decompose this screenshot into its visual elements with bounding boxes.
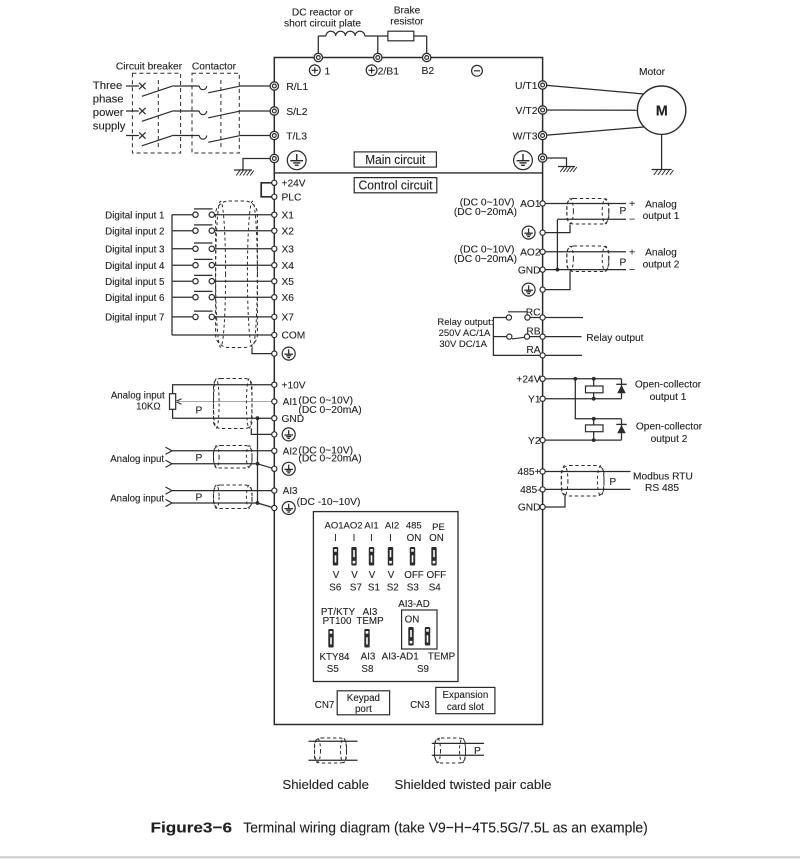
wire AI2 signal <box>172 450 274 452</box>
svg-text:Shielded cable: Shielded cable <box>282 777 369 792</box>
svg-text:PT100: PT100 <box>323 616 352 627</box>
junction AI2 common <box>256 462 260 466</box>
analog common wire vertical <box>257 418 259 503</box>
earth symbol motor <box>652 169 672 171</box>
wire 485- <box>543 488 631 490</box>
svg-text:P: P <box>196 493 203 504</box>
svg-text:AO1: AO1 <box>520 199 541 210</box>
earth symbol output side <box>558 166 575 168</box>
junction AO1 minus GND <box>556 268 560 272</box>
wire AI3 common <box>172 502 258 504</box>
svg-text:Analog: Analog <box>645 199 677 210</box>
svg-text:(DC 0~20mA): (DC 0~20mA) <box>298 454 361 465</box>
svg-text:(DC 0~20mA): (DC 0~20mA) <box>298 405 361 416</box>
svg-text:Digital input 2: Digital input 2 <box>105 226 164 237</box>
svg-text:P: P <box>609 477 616 488</box>
svg-text:power: power <box>93 107 124 119</box>
wire bus to switch X6 <box>172 296 193 298</box>
DIP switch S4 <box>431 547 436 566</box>
breaker fixed contact X mark phase T <box>139 132 146 138</box>
svg-text:S/L2: S/L2 <box>286 107 308 118</box>
terminal AO2 <box>540 249 545 254</box>
wire bracket to RB contact <box>493 336 506 338</box>
svg-text:Relay output: Relay output <box>586 333 643 344</box>
terminal 485- <box>540 487 545 492</box>
svg-text:AI2: AI2 <box>283 446 298 457</box>
svg-text:W/T3: W/T3 <box>513 131 538 142</box>
svg-text:2/B1: 2/B1 <box>378 67 400 78</box>
wire switch to terminal X3 <box>215 248 275 250</box>
wire phase T input <box>126 135 139 137</box>
svg-text:R/L1: R/L1 <box>286 82 308 93</box>
svg-text:supply: supply <box>93 121 126 133</box>
svg-text:Y2: Y2 <box>528 436 541 447</box>
svg-text:CN7: CN7 <box>315 700 335 711</box>
svg-text:CN3: CN3 <box>410 700 430 711</box>
svg-text:P: P <box>196 406 203 417</box>
svg-text:S5: S5 <box>327 664 340 675</box>
circuit breaker blade phase S <box>142 111 174 122</box>
svg-text:S6: S6 <box>329 583 342 594</box>
terminal +2/B1 <box>374 53 382 61</box>
PE symbol AO2 <box>522 283 535 296</box>
svg-text:ON: ON <box>405 615 420 626</box>
shielded cable AI2 <box>214 446 253 469</box>
label box: Main circuit <box>354 152 436 167</box>
svg-text:V: V <box>333 570 340 581</box>
junction 24V a <box>573 377 577 381</box>
svg-text:V: V <box>388 570 395 581</box>
svg-text:Analog: Analog <box>645 248 677 259</box>
svg-text:AI3: AI3 <box>361 652 376 663</box>
terminal RC <box>540 315 545 320</box>
relay common bracket wire <box>493 318 542 356</box>
svg-text:Digital input 7: Digital input 7 <box>105 313 164 324</box>
PE symbol AI1 <box>282 428 295 441</box>
wire +24V rail <box>543 378 622 380</box>
svg-text:X7: X7 <box>282 313 295 324</box>
wire switch to terminal X7 <box>215 316 275 318</box>
terminal PE digital <box>272 351 277 356</box>
svg-text:AO2: AO2 <box>343 520 362 531</box>
contactor fixed contact arc phase R <box>199 86 206 90</box>
shielded twisted pair 485 <box>561 466 604 497</box>
svg-text:Analog input: Analog input <box>110 454 164 465</box>
wire resistor to terminal B2 <box>414 35 427 37</box>
svg-text:phase: phase <box>93 94 124 106</box>
svg-text:S4: S4 <box>429 583 442 594</box>
page scan edge line <box>0 856 800 858</box>
switch X3 <box>193 246 198 251</box>
arrow AI2 minus <box>166 460 173 464</box>
svg-text:S9: S9 <box>417 664 429 675</box>
terminal X1 <box>272 212 277 217</box>
svg-text:GND: GND <box>518 503 541 514</box>
svg-text:P: P <box>620 206 627 217</box>
PE symbol main right <box>514 151 533 170</box>
earth symbol input side <box>234 169 252 171</box>
wire phase S input <box>126 110 139 112</box>
label box: Control circuit <box>354 178 437 193</box>
svg-text:+10V: +10V <box>282 380 306 391</box>
svg-text:M: M <box>656 103 668 119</box>
svg-text:S7: S7 <box>350 583 362 594</box>
svg-text:S8: S8 <box>361 664 374 675</box>
contactor linkage dashed line <box>220 80 222 149</box>
svg-text:B2: B2 <box>422 66 435 77</box>
breaker fixed contact X mark phase R <box>139 83 146 89</box>
svg-text:P: P <box>196 453 203 464</box>
DIP switch S5 <box>328 629 333 648</box>
svg-text:Digital input 5: Digital input 5 <box>105 277 165 288</box>
svg-text:U/T1: U/T1 <box>515 81 538 92</box>
inverter enclosure box <box>274 58 542 725</box>
svg-text:(DC 0~20mA): (DC 0~20mA) <box>454 207 517 218</box>
terminal V/T2 <box>538 106 546 114</box>
svg-text:Analog input: Analog input <box>110 493 164 504</box>
svg-text:Modbus RTU: Modbus RTU <box>633 472 693 483</box>
wire GND to 485 shield <box>543 496 565 508</box>
wire contactor to terminal phase R <box>240 85 275 87</box>
svg-text:+24V: +24V <box>282 179 306 190</box>
svg-text:AI1: AI1 <box>364 520 378 531</box>
svg-text:AI3: AI3 <box>283 486 298 497</box>
svg-text:(DC -10~10V): (DC -10~10V) <box>297 497 361 508</box>
contactor fixed contact arc phase S <box>199 111 206 115</box>
terminal Y1 <box>540 396 545 401</box>
svg-text:output 2: output 2 <box>651 434 688 445</box>
svg-text:485-: 485- <box>520 485 540 496</box>
wire output PE terminal to earth <box>543 158 567 167</box>
terminal AI1 <box>272 399 277 404</box>
wire RB out <box>543 336 582 338</box>
terminal +1 <box>314 53 322 61</box>
terminal X4 <box>272 263 277 268</box>
svg-text:Open-collector: Open-collector <box>636 421 703 432</box>
terminal Y2 <box>540 438 545 443</box>
wire switch to terminal X4 <box>215 264 275 266</box>
wire 24V drop to second block <box>575 379 621 419</box>
svg-text:output 1: output 1 <box>643 211 680 222</box>
label (-) <box>472 65 483 76</box>
svg-text:I: I <box>370 533 373 544</box>
switch X4 <box>193 263 198 268</box>
wire PE AO2 to shield <box>543 272 570 290</box>
svg-text:Y1: Y1 <box>528 394 541 405</box>
svg-text:10KΩ: 10KΩ <box>136 402 160 413</box>
arrow AI2 plus <box>166 447 173 451</box>
svg-text:Open-collector: Open-collector <box>635 379 702 390</box>
svg-text:Relay output:: Relay output: <box>437 317 493 328</box>
wire switch to terminal X5 <box>215 280 275 282</box>
svg-text:(DC 0~20mA): (DC 0~20mA) <box>454 254 517 265</box>
svg-text:X6: X6 <box>282 293 295 304</box>
svg-text:RS 485: RS 485 <box>645 483 679 494</box>
terminal U/T1 <box>538 81 546 89</box>
terminal RA <box>540 353 545 358</box>
wire AO1 minus to GND <box>556 219 558 269</box>
terminal RB <box>540 334 545 339</box>
svg-text:output 2: output 2 <box>643 259 680 270</box>
svg-text:AI2: AI2 <box>385 520 399 531</box>
svg-text:Terminal wiring diagram (take: Terminal wiring diagram (take V9−H−4T5.5… <box>243 820 648 837</box>
shielded cable AO1 <box>567 199 609 225</box>
svg-text:Contactor: Contactor <box>192 61 237 72</box>
svg-text:S1: S1 <box>368 583 380 594</box>
terminal T/L3 <box>270 131 278 139</box>
circuit breaker blade phase R <box>142 86 174 97</box>
wire 485+ <box>543 471 631 473</box>
svg-text:X4: X4 <box>282 261 295 272</box>
svg-text:Keypad: Keypad <box>347 693 380 704</box>
svg-text:GND: GND <box>282 414 305 425</box>
svg-text:1: 1 <box>325 67 331 78</box>
terminal W/T3 <box>538 131 546 139</box>
diode D2 <box>621 419 623 440</box>
svg-text:RA: RA <box>526 345 540 356</box>
svg-text:COM: COM <box>282 331 306 342</box>
terminal S/L2 <box>270 107 278 115</box>
wire GND minus <box>543 269 626 271</box>
DIP switch S8 <box>364 629 369 648</box>
terminal GND left <box>272 416 277 421</box>
wire Y2 <box>543 439 622 441</box>
potentiometer wiper arrow <box>176 399 182 402</box>
contactor blade phase R <box>208 86 239 93</box>
svg-text:RB: RB <box>526 326 540 337</box>
wire AI1 shield drain to PE <box>251 429 274 435</box>
wire junction to brake resistor <box>378 35 388 37</box>
svg-text:Brake: Brake <box>394 6 421 17</box>
junction 24V b <box>592 377 596 381</box>
wire +24V PLC bracket <box>261 183 274 197</box>
svg-text:X1: X1 <box>282 210 295 221</box>
wire RB contact to terminal <box>530 336 543 338</box>
svg-text:Expansion: Expansion <box>443 690 489 701</box>
DIP switch S2 <box>388 547 393 566</box>
switch X2 <box>193 228 198 233</box>
shielded cable AI1 <box>214 379 253 429</box>
svg-text:V: V <box>369 570 376 581</box>
wire COM row <box>172 334 274 336</box>
PE symbol digital <box>282 347 295 360</box>
PE symbol main left <box>287 151 306 170</box>
terminal R/L1 <box>270 82 278 90</box>
svg-text:Digital input 1: Digital input 1 <box>105 210 164 221</box>
svg-text:V: V <box>351 570 358 581</box>
svg-text:S2: S2 <box>387 583 399 594</box>
wire terminal 1 up to reactor <box>317 36 319 58</box>
terminal X6 <box>272 295 277 300</box>
wire phase R input <box>126 85 139 87</box>
terminal AI2 <box>272 448 277 453</box>
wire wiper to AI1 <box>176 401 274 403</box>
DIP switch S7 <box>351 547 356 566</box>
svg-text:port: port <box>355 704 372 715</box>
wire AO2 plus <box>543 251 626 253</box>
svg-text:I: I <box>334 533 337 544</box>
legend shielded twisted pair symbol <box>432 742 484 744</box>
terminal AO1 <box>540 201 545 206</box>
relay contact RB <box>507 334 512 339</box>
svg-text:Motor: Motor <box>639 67 666 78</box>
wire bus to switch X2 <box>172 230 193 232</box>
junction GND common <box>256 416 260 420</box>
brake resistor R <box>388 31 414 41</box>
expansion card slot box <box>436 687 495 713</box>
junction Y1 <box>592 397 596 401</box>
wire AI2 common to PE <box>258 464 275 469</box>
svg-text:GND: GND <box>518 265 541 276</box>
wire AO1 minus <box>557 218 626 220</box>
svg-text:card slot: card slot <box>447 702 484 713</box>
contactor dashed box <box>192 73 239 153</box>
svg-text:30V DC/1A: 30V DC/1A <box>439 339 487 350</box>
wire Y1 <box>543 398 622 400</box>
svg-text:TEMP: TEMP <box>428 652 456 663</box>
svg-text:ON: ON <box>429 533 444 544</box>
svg-text:PE: PE <box>432 522 445 533</box>
wire contactor to terminal phase T <box>240 135 275 137</box>
switch X5 <box>193 279 198 284</box>
wire U/T1 to motor <box>543 85 644 94</box>
svg-text:AI3-AD: AI3-AD <box>398 599 430 610</box>
svg-text:OFF: OFF <box>427 570 447 581</box>
circuit breaker dashed box <box>132 73 180 153</box>
svg-text:250V AC/1A: 250V AC/1A <box>439 328 491 339</box>
jumper/DIP switch box <box>313 512 458 682</box>
terminal X3 <box>272 246 277 251</box>
wire W/T3 to motor <box>543 127 644 136</box>
svg-text:Digital input 6: Digital input 6 <box>105 293 165 304</box>
terminal +24V left <box>272 180 277 185</box>
contactor fixed contact arc phase T <box>199 136 206 140</box>
svg-text:P: P <box>620 258 627 269</box>
label (+) 1 <box>309 65 320 76</box>
svg-text:X5: X5 <box>282 277 295 288</box>
AI3-AD sub box <box>402 610 437 649</box>
terminal +10V <box>272 382 277 387</box>
wire bus to switch X5 <box>172 280 193 282</box>
svg-text:−: − <box>629 264 635 276</box>
svg-text:AO1: AO1 <box>324 520 343 531</box>
svg-text:485: 485 <box>406 520 422 531</box>
switch X7 <box>193 314 198 319</box>
motor M <box>637 86 685 134</box>
svg-text:+: + <box>629 247 635 259</box>
svg-text:X2: X2 <box>282 226 295 237</box>
wire bus to switch X1 <box>172 214 193 216</box>
svg-text:V/T2: V/T2 <box>516 106 538 117</box>
svg-text:output 1: output 1 <box>650 392 687 403</box>
arrow AI3 plus <box>166 487 173 491</box>
wire RA out <box>543 354 582 356</box>
svg-text:RC: RC <box>526 307 541 318</box>
wire AI3 common to PE <box>258 503 275 508</box>
terminal COM <box>272 332 277 337</box>
PE symbol AI2 <box>282 462 295 475</box>
svg-text:Figure3−6: Figure3−6 <box>151 820 233 837</box>
relay contact RC <box>506 315 511 320</box>
terminal X2 <box>272 228 277 233</box>
wire contactor to terminal phase S <box>240 110 275 112</box>
wire switch to terminal X2 <box>215 230 275 232</box>
wire +10V to potentiometer <box>173 385 275 394</box>
svg-text:Main circuit: Main circuit <box>365 152 425 167</box>
wire motor to earth <box>661 134 663 169</box>
wire AI2 common <box>172 463 258 465</box>
terminal PLC <box>272 194 277 199</box>
svg-text:Three: Three <box>93 80 123 92</box>
svg-text:+: + <box>629 198 635 210</box>
wire switch to terminal X6 <box>215 296 275 298</box>
switch X6 <box>193 295 198 300</box>
svg-text:TEMP: TEMP <box>356 616 384 627</box>
terminal PE AO2 <box>540 287 545 292</box>
diode D1 <box>621 379 623 399</box>
inductor DC reactor <box>326 31 365 36</box>
wire bus to switch X4 <box>172 264 193 266</box>
shielded cable AO2 <box>567 246 609 272</box>
terminal 485+ <box>540 469 545 474</box>
wire shield drain to PE <box>252 348 274 354</box>
junction Y2 <box>592 438 596 442</box>
arrow AI3 minus <box>166 499 173 503</box>
svg-text:X3: X3 <box>282 245 295 256</box>
svg-text:P: P <box>474 746 481 757</box>
breaker fixed contact X mark phase S <box>139 108 146 114</box>
svg-text:KTY84: KTY84 <box>320 652 351 663</box>
wire PE AO1 to shield <box>543 225 570 233</box>
label (+) 2/B1 <box>366 65 377 76</box>
main/control divider line <box>274 172 542 174</box>
DIP switch TEMP <box>425 627 430 646</box>
contactor blade phase T <box>208 136 239 143</box>
svg-text:Control circuit: Control circuit <box>359 178 433 193</box>
svg-text:AO2: AO2 <box>520 248 541 259</box>
terminal X7 <box>272 314 277 319</box>
svg-text:OFF: OFF <box>404 570 424 581</box>
svg-text:AI1: AI1 <box>283 397 298 408</box>
svg-text:ON: ON <box>407 533 422 544</box>
svg-text:Analog input: Analog input <box>111 390 165 401</box>
contactor blade phase S <box>208 111 239 118</box>
svg-text:I: I <box>389 533 392 544</box>
terminal B2 <box>423 53 431 61</box>
wire reactor to terminal 2/B1 <box>365 35 378 37</box>
wire input PE terminal to earth <box>243 159 274 171</box>
terminal PE AI1 <box>272 432 277 437</box>
svg-text:short circuit plate: short circuit plate <box>284 18 361 29</box>
wire bus to switch X3 <box>172 248 193 250</box>
wire AI3 signal <box>172 490 274 492</box>
junction AI3 common <box>256 501 260 505</box>
breaker linkage dashed line <box>157 80 159 149</box>
switch X1 <box>193 212 198 217</box>
svg-text:Digital input 4: Digital input 4 <box>105 261 165 272</box>
svg-text:Digital input 3: Digital input 3 <box>105 244 165 255</box>
wire RC contact to terminal <box>530 317 543 319</box>
potentiometer 10K <box>170 394 176 410</box>
keypad port box <box>337 691 389 715</box>
svg-text:AI3-AD1: AI3-AD1 <box>382 652 419 663</box>
svg-text:T/L3: T/L3 <box>286 131 307 142</box>
svg-text:+24V: +24V <box>516 375 540 386</box>
DIP switch AI3-AD1 <box>408 627 413 646</box>
terminal AI3 <box>272 488 277 493</box>
svg-text:PLC: PLC <box>282 193 302 204</box>
shielded cable digital inputs <box>216 201 258 348</box>
